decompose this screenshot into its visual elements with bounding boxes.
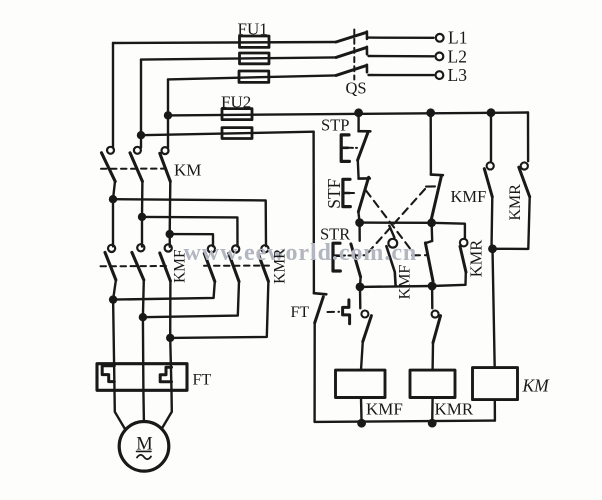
STP actuator middle arm (341, 147, 348, 150)
interlock contact STF-NC upper wire (430, 223, 433, 241)
QS pole 1 jaw (366, 32, 369, 39)
thermal relay FT box (97, 364, 187, 391)
svg-text:L2: L2 (448, 47, 467, 67)
FT heater element 2 (160, 367, 171, 382)
wire phase-2 from L2 to vertical rail B (141, 57, 336, 59)
svg-text:KMR: KMR (272, 248, 289, 284)
control left rail from FU2-2 down to FT contact (312, 132, 315, 294)
KM main contact 3 fixed terminal (162, 147, 169, 154)
svg-text:FU1: FU1 (238, 20, 268, 39)
wire rail B into KMF contact 2 (141, 217, 143, 247)
node dot below STR (356, 283, 365, 292)
crossover wire phase C to KMR pole 1 (170, 234, 213, 246)
tie wire STR node to KMR branch node (360, 285, 432, 288)
svg-text:L3: L3 (448, 65, 468, 85)
QS mechanical linkage dashed (353, 30, 355, 80)
crossover wire phase A to KMR pole 3 (113, 199, 266, 246)
STF actuator dashed link (351, 192, 358, 194)
QS pole 2 blade (336, 48, 366, 58)
STR blade (351, 244, 361, 277)
KMR main contact 3 blade (258, 253, 268, 281)
coil KMF box (336, 370, 386, 397)
wire into KMF coil (361, 342, 363, 371)
button interlock dashed diagonal A (368, 189, 426, 253)
start button STR upper wire (358, 223, 361, 241)
STP blade (358, 132, 368, 160)
svg-text:STR: STR (320, 225, 350, 244)
KMR interlock loop bottom wire (432, 272, 466, 286)
svg-text:KMR: KMR (507, 184, 524, 221)
svg-text:FT: FT (291, 304, 310, 321)
control left rail below FT to bottom rail (313, 323, 316, 422)
wire rail C into KMF contact 3 (168, 234, 171, 247)
KMR-NC blade (363, 316, 372, 342)
wire KMR contact 2 to node B (143, 282, 239, 318)
KM main contact 2 fixed terminal (134, 147, 141, 154)
wire KMR contact 3 to node C (170, 281, 268, 338)
wire below KMF contact 2 (142, 280, 145, 317)
KMR interlock fixed terminal (460, 239, 468, 247)
wire into KMR coil (431, 343, 434, 370)
node dot below STF (355, 218, 364, 227)
KMR aux lower wire joining KMF aux (492, 197, 530, 249)
STF-NC blade (425, 243, 433, 281)
KMR main contact 2 fixed terminal (232, 245, 239, 252)
STF blade (358, 177, 368, 212)
wire phase-1 from L1 to vertical rail A (113, 42, 336, 43)
svg-text:FT: FT (193, 372, 212, 389)
node dot KM branch (488, 244, 497, 253)
FT heater element 1 (102, 366, 114, 382)
vertical rail B (phase 2) down to KM contact (140, 60, 142, 148)
interlock pivot circle (388, 239, 397, 248)
KMF main contact 2 fixed terminal (137, 244, 144, 251)
contactor KM main contact 1 fixed terminal (107, 147, 114, 154)
KMR main contact 1 blade (204, 253, 215, 281)
STF actuator middle arm (343, 192, 350, 195)
svg-text:L1: L1 (448, 28, 467, 48)
node dot B2 (139, 313, 147, 321)
fuse FU1 pole 1 (240, 36, 270, 47)
FT overload contact fixed tick (314, 293, 326, 294)
wire below KM contact 1 (113, 181, 115, 199)
KMR main contact 3 fixed terminal (261, 245, 268, 252)
disconnect switch QS pole 1 blade (336, 33, 366, 42)
node dot KMR branch (428, 282, 437, 291)
vertical rail A (phase 1) down to KM contact (112, 43, 114, 148)
KMF-NC fixed terminal (432, 311, 439, 318)
coil KMR box (410, 370, 455, 397)
svg-text:FU2: FU2 (221, 93, 251, 112)
wire A into thermal relay FT (113, 300, 114, 391)
KMF-NC contact above KMR coil upper wire (431, 286, 434, 308)
coil KM box (473, 368, 518, 400)
KMR aux blade (519, 167, 530, 197)
node dot bus / STP column (354, 108, 363, 117)
tie wire STF node to self-hold node (360, 221, 432, 224)
wire below KM contact 2 (141, 181, 144, 217)
node dot bus / KMF aux column (487, 108, 496, 117)
KM main contact 3 blade (160, 153, 171, 181)
KMF coil bottom wire (360, 398, 363, 424)
terminal circle L3 (436, 71, 444, 79)
STR actuator bracket (333, 243, 340, 271)
KMF main contact 2 blade (132, 252, 144, 280)
wire C into thermal relay FT (170, 338, 171, 391)
bus corner down to KMR aux (527, 113, 529, 162)
STF-NC fixed tick (426, 241, 432, 243)
node dot bus / KMF self-hold column (426, 108, 435, 117)
svg-text:STP: STP (321, 116, 349, 135)
svg-text:KMF: KMF (396, 265, 413, 300)
KMR interlock loop top wire (432, 223, 465, 239)
KMF self-hold fixed contact tick (431, 173, 443, 176)
STF actuator bracket (343, 179, 350, 206)
STP actuator bracket (341, 135, 349, 162)
KMF aux fixed terminal (487, 162, 494, 169)
wire STF to node (358, 212, 359, 223)
KMF aux blade (484, 169, 492, 197)
STP fixed contact tick (359, 130, 371, 133)
fuse FU1 pole 2 (240, 53, 270, 64)
svg-text:STF: STF (324, 178, 344, 208)
motor lead left (115, 390, 126, 429)
svg-text:KM: KM (522, 376, 551, 396)
KMR coil bottom wire (431, 398, 434, 424)
svg-text:www.eeworld.com.cn: www.eeworld.com.cn (184, 240, 418, 266)
terminal circle L2 (436, 53, 444, 61)
svg-text:KMR: KMR (435, 400, 474, 419)
node dot rail C / FU2-1 (164, 111, 172, 119)
interlock dashed link to STF-NC blade (412, 254, 428, 256)
FT dashed link (328, 311, 340, 313)
wire KMR contact 1 to node A (113, 282, 215, 300)
wire QS to terminal L1 (369, 36, 434, 39)
QS pole 3 jaw (366, 65, 369, 72)
KMF main contact 1 blade (105, 252, 116, 280)
vertical rail C (phase 3) down to KM contact (167, 79, 169, 147)
svg-text:KMF: KMF (451, 187, 487, 206)
STP actuator dashed link (350, 147, 358, 149)
QS pole 2 jaw (366, 47, 369, 54)
KMF-NC blade (433, 316, 441, 343)
fuse FU1 pole 3 (239, 71, 269, 82)
stop button STP upper wire (357, 113, 359, 131)
motor M underline (137, 450, 152, 452)
KM main contact 2 blade (130, 153, 142, 182)
interlock pivot stem (389, 226, 394, 238)
STR actuator dashed link (341, 254, 371, 256)
interlock pivot arm (386, 246, 395, 285)
fuse FU2-1 (222, 109, 252, 120)
wire phase-3 from L3 to vertical rail C (168, 75, 336, 79)
node dot C2 (166, 334, 174, 342)
svg-text:KMF: KMF (171, 249, 188, 283)
KMF aux lower wire (490, 197, 493, 249)
node dot KMR coil on rail (428, 419, 437, 428)
start button STF fixed contact tick (359, 177, 370, 180)
KMR interlock blade (460, 246, 466, 272)
svg-text:QS: QS (346, 79, 367, 98)
node B dot below KM pole2 (138, 213, 146, 221)
wire down to KM coil (493, 249, 495, 368)
motor M circle (119, 422, 169, 472)
KMF main contact 3 blade (160, 253, 171, 281)
wire QS to terminal L3 (369, 74, 434, 76)
wire STP to STF (357, 160, 360, 178)
button interlock dashed diagonal B (366, 191, 412, 251)
KMR main contact 2 blade (229, 253, 239, 281)
crossover wire phase B to KMR pole 2 (142, 217, 238, 247)
KM linkage dashed (101, 168, 166, 170)
svg-text:M: M (136, 435, 152, 455)
KM main contact 1 blade (102, 153, 116, 182)
contactor KMF main contact 1 fixed terminal (108, 245, 115, 252)
terminal circle L1 (436, 34, 444, 42)
STF-NC lower wire (431, 281, 434, 286)
bottom return rail (315, 421, 495, 422)
KMR-NC fixed terminal (361, 311, 368, 318)
FT overload contact blade (315, 297, 324, 323)
motor lead middle (142, 390, 145, 421)
wire below KMF contact 1 (113, 280, 116, 300)
node dot rail B / FU2-2 (137, 131, 145, 139)
KMF linkage dashed (101, 265, 171, 267)
KMR linkage dashed (204, 265, 269, 267)
svg-text:KMF: KMF (366, 400, 403, 419)
KMF main contact 3 fixed terminal (165, 244, 172, 251)
KMR aux fixed terminal (521, 162, 528, 169)
svg-text:KMR: KMR (467, 240, 486, 278)
wire below KM contact 3 (168, 181, 171, 234)
node dot A2 (109, 295, 117, 303)
FT actuator square zigzag (343, 300, 350, 324)
wire STR to node (359, 277, 362, 287)
KM coil bottom wire (494, 400, 497, 421)
KMF self-hold blade (431, 176, 441, 219)
KMR-NC contact above KMF coil upper wire (359, 287, 362, 308)
control feed wire and bus from rail C through fuse FU2-1 (168, 113, 528, 116)
wire QS to terminal L2 (369, 55, 434, 58)
node C dot below KM pole3 (166, 230, 174, 238)
QS pole 3 blade (336, 66, 366, 76)
svg-text:KM: KM (174, 161, 201, 180)
node dot below KMF self-hold (427, 218, 436, 227)
KMF self-hold contact upper wire (430, 113, 433, 175)
node A dot below KM pole1 (109, 195, 117, 203)
wire below KMF contact 3 (169, 281, 172, 338)
node dot KMF coil on rail (357, 419, 366, 428)
KMF aux contact upper wire (490, 113, 492, 162)
control feed wire from rail B through fuse FU2-2 (141, 132, 314, 136)
wire B into thermal relay FT (142, 317, 145, 390)
STR actuator middle arm (333, 254, 340, 257)
contactor KMR main contact 1 fixed terminal (208, 245, 215, 252)
wire rail A into KMF contact 1 (112, 199, 114, 246)
motor tilde (137, 455, 151, 459)
motor lead right (162, 390, 172, 428)
interlock dashed link to KMF self-hold blade (426, 185, 438, 187)
fuse FU2-2 (222, 128, 252, 139)
